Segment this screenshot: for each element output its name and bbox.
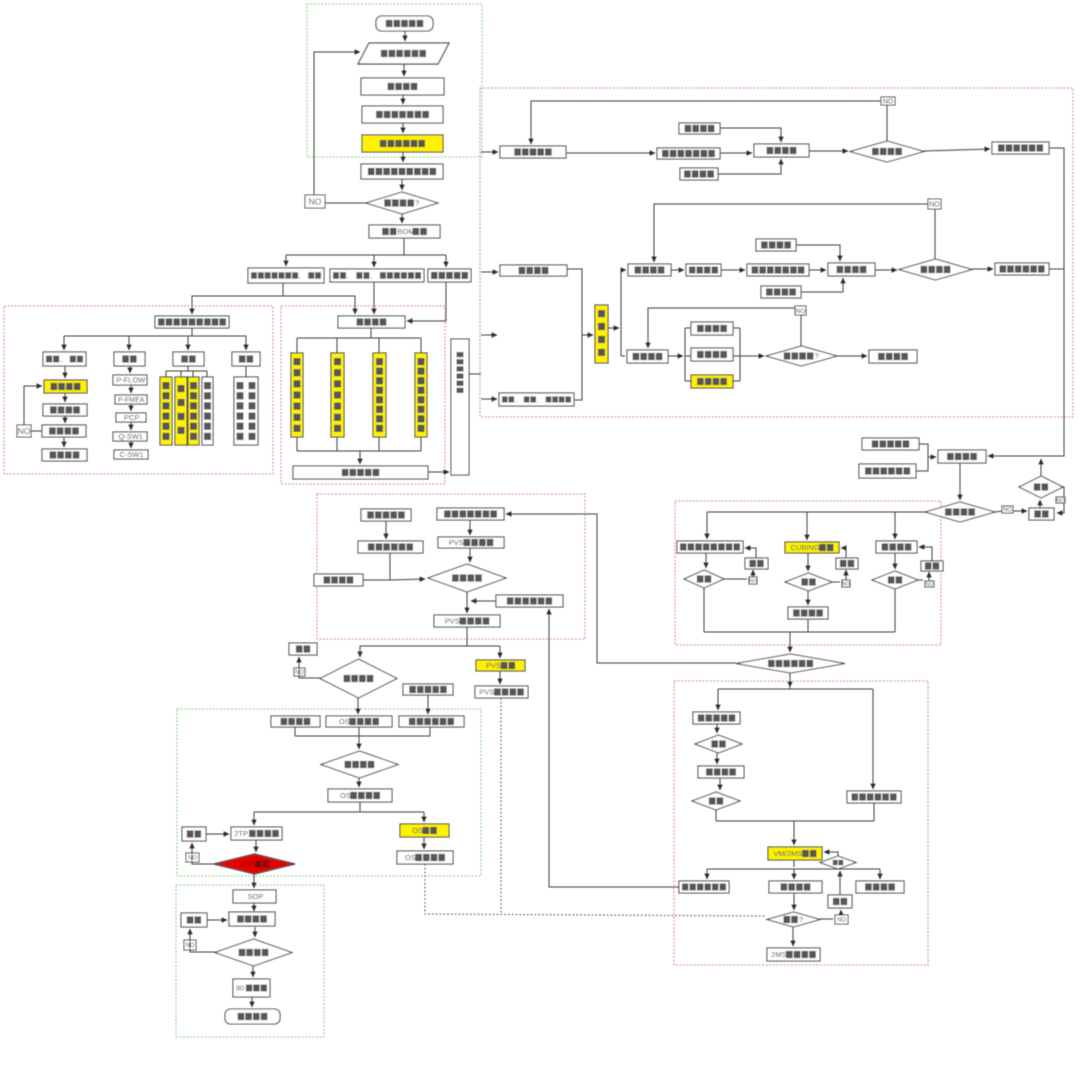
wire: 原材料采购 -> 自制零件生产 (PVS) bbox=[385, 521, 387, 539]
wire: 自制零件生产 -> collector bbox=[429, 727, 431, 736]
svg-text:NO: NO bbox=[1056, 498, 1065, 504]
svg-text:?: ? bbox=[815, 352, 819, 361]
wire: 整改 -> 2TP生产准备 bbox=[206, 833, 229, 835]
box: NO (2TP loop) bbox=[186, 853, 199, 862]
wire: vertical tap -> 设计审核 bbox=[582, 334, 593, 336]
wire: 性能试验样品装配 -> 实验1 bbox=[705, 553, 707, 568]
box: 工装验收 bbox=[691, 348, 733, 361]
wire: 自制零件生产 -> 入库检验 (PVS) bbox=[389, 553, 391, 580]
wire: NO -> 整改 bbox=[1013, 510, 1027, 512]
box: 工艺 bbox=[114, 352, 145, 366]
box: 投入使用 bbox=[869, 350, 917, 363]
wire: distribution horizontal (2MS bottom) bbox=[707, 868, 880, 870]
svg-text:2MS: 2MS bbox=[771, 950, 786, 959]
wire: collector stem 2 bbox=[336, 437, 338, 451]
wire: 包装采购 + 自制零件生产 -> 入库检验 left bbox=[363, 579, 390, 581]
wire: collector -> 送样状态确认 bbox=[789, 632, 791, 652]
box: NO (性能3) bbox=[925, 581, 934, 588]
svg-text:NO: NO bbox=[837, 918, 846, 924]
wire: PVS送样 -> PVS状态跟踪 bbox=[499, 671, 501, 684]
vbox: 材料试验大纲 (yellow) bbox=[160, 377, 172, 445]
box: 项目立项 bbox=[361, 78, 444, 95]
wire: 2TP生产准备 -> 2TP审核 bbox=[255, 840, 257, 852]
wire: collector horizontal (OS) bbox=[295, 735, 430, 737]
wire: 初步评定 -> 等待总成装配 (row1) bbox=[924, 149, 990, 151]
wire: 2TP审核 -> SOP bbox=[253, 874, 255, 888]
wire: 送样文件准备 -> collector bbox=[873, 803, 875, 821]
wire: 检验2 -> collector (2MS) bbox=[715, 810, 717, 821]
wire: 整改 -> 持续改进 bbox=[207, 919, 227, 921]
svg-text:P-FMEA: P-FMEA bbox=[118, 397, 145, 404]
wire: split -> 工艺 bbox=[128, 336, 130, 350]
wire: 实验1 -> NO bbox=[724, 578, 747, 580]
svg-text:,: , bbox=[347, 273, 349, 280]
box: 等待生产 bbox=[42, 449, 87, 461]
wire: split -> 分零件生产 bbox=[717, 689, 719, 710]
box: 包装物流 bbox=[43, 352, 86, 366]
svg-text:PVS: PVS bbox=[479, 688, 494, 697]
wire: 送样状态确认 -> split (2MS section) bbox=[789, 673, 791, 687]
svg-text:VM/2MS: VM/2MS bbox=[774, 849, 803, 858]
wire: 设计审核 -> 制造跟踪 vertical bbox=[608, 327, 619, 329]
wire: 工装验收 -> bracket right bbox=[733, 355, 740, 357]
wire: 原材料采购 -> 自制零件生产 (OS) bbox=[427, 695, 429, 714]
wire: stem 零部件检验规 bbox=[206, 371, 208, 377]
box: NO (生产评价 loop) bbox=[184, 940, 196, 950]
decision: 实验 (性能3) bbox=[872, 571, 918, 589]
wire: split -> 送样文件准备 bbox=[872, 689, 874, 789]
vbox: 确定检具供应商 (yellow) bbox=[331, 353, 344, 437]
svg-text:C-SW1: C-SW1 bbox=[120, 450, 144, 459]
vbox: 模具检具工装设备验收规范 bbox=[234, 377, 258, 445]
decision: 生产评价 bbox=[215, 939, 292, 966]
wire: 检验规范 -> 样品检验 top (row2) bbox=[796, 245, 840, 261]
svg-text:,: , bbox=[371, 273, 373, 280]
wire: collector stem 4 bbox=[420, 437, 422, 451]
wire: split bar to three tasks bbox=[286, 254, 446, 256]
wire: 大众认可 -> NO bbox=[31, 430, 42, 432]
wire: 项目启动会议 -> 数据制造可行性分析 bbox=[402, 152, 404, 162]
svg-text:,: , bbox=[537, 397, 539, 404]
wire: bracket -> 检具验收 bbox=[685, 380, 691, 382]
wire: distribution -> CUBING送样 bbox=[806, 512, 808, 540]
box: 包装采购 (PVS) bbox=[314, 574, 363, 586]
section border: bottom-right 2MS (pink dashed) bbox=[674, 681, 928, 965]
box: 检验工具 (row2) bbox=[761, 286, 801, 298]
decision: 通过? (2MS) bbox=[767, 912, 820, 927]
svg-text:NO: NO bbox=[926, 582, 934, 588]
box: 包装采购 (OS) bbox=[271, 716, 320, 727]
wire: NO loop -> 零部件试制 top (row1) bbox=[531, 101, 881, 144]
wire: collector stem 3 bbox=[378, 437, 380, 451]
wire: 检验工具 -> 样品检验 bottom (row2) bbox=[801, 278, 843, 292]
wire: 提交开发计划 -> right section border bbox=[469, 373, 481, 375]
wire: 验收合格 -> 投入使用 bbox=[837, 355, 867, 357]
wire: 检验 diamond -> up into 总成装配 line bbox=[1040, 459, 1042, 476]
box: CUBING送样 (yellow) bbox=[785, 542, 839, 553]
wire: split horizontal (PVS下) bbox=[360, 645, 500, 647]
section border: top development (green dashed) bbox=[307, 4, 482, 157]
vbox: 确定模具供应商 (yellow) bbox=[291, 353, 303, 437]
box: 分零件图纸绘制转换 bbox=[248, 268, 324, 283]
box: 试验取样 bbox=[876, 541, 917, 553]
wire: 实验 diamond -> VM/2MS送样 loop bbox=[824, 852, 838, 856]
decision: 初步评定 (row2) bbox=[899, 259, 972, 280]
box: 设备验收 bbox=[691, 322, 733, 335]
wire: P-FLOW -> P-FMEA bbox=[130, 385, 132, 393]
wire: 等待总成装配 row2 joins long line bbox=[1049, 268, 1064, 270]
box: 检验工具 (row1) bbox=[680, 168, 718, 180]
box: 样品制造 bbox=[43, 404, 87, 416]
box: 整改 (SOP loop) bbox=[181, 913, 207, 927]
box: 制造跟踪 (row2) bbox=[628, 264, 671, 276]
decision: 2TP审核 (red) bbox=[214, 854, 295, 874]
box: 自制零件生产 (OS) bbox=[399, 716, 464, 727]
decision: 验证通过? bbox=[366, 192, 438, 214]
wire: 零部件试制 -> 样品提交及报告 bbox=[566, 152, 655, 154]
wire: 成立多功能小组 -> 项目启动会议 bbox=[402, 123, 404, 133]
wire: 通过 -> NO bbox=[832, 581, 840, 583]
wire: 验收合格 -> NO (row3) bbox=[800, 315, 802, 346]
svg-text:NO: NO bbox=[929, 202, 940, 209]
wire: vertical -> 制造跟踪 row3 bbox=[621, 355, 625, 357]
section border: right trial-make (pink dashed) bbox=[480, 88, 1073, 417]
wire: 检验 NO loop down bbox=[1057, 487, 1064, 513]
box: 采购询价 bbox=[338, 316, 405, 328]
wire: 送样状态确认 -> PVS 外购件认可报告 (long loop) bbox=[506, 514, 736, 663]
box: 整改 (OS loop) bbox=[182, 827, 206, 841]
box: P-FMEA bbox=[115, 395, 147, 404]
wire: 过程设计 -> OS零件采购 bbox=[357, 698, 359, 714]
box: 数据制造可行性分析 bbox=[361, 164, 443, 179]
box: 开发任务书 (development task, rounded) bbox=[376, 16, 433, 31]
wire: merge -> 入库检验 left vertex bbox=[390, 579, 425, 580]
wire: distribution -> 认可跟踪 bbox=[793, 869, 795, 879]
wire: 样品制造 -> 大众认可 bbox=[64, 416, 66, 423]
svg-text:NO: NO bbox=[842, 581, 850, 587]
wire: 持续改进 -> 生产评价 bbox=[254, 927, 256, 937]
wire: stem 测量计划 bbox=[180, 371, 182, 377]
svg-text:CUBING: CUBING bbox=[791, 543, 820, 552]
wire: 入库检验 -> OS总成装配 bbox=[358, 778, 360, 787]
svg-text:NO: NO bbox=[18, 426, 31, 436]
section border: OS (green dashed) bbox=[177, 709, 481, 876]
decision: 总成检验 bbox=[925, 502, 995, 522]
wire: 供应商定点 -> 提交开发计划 bbox=[428, 471, 449, 473]
wire: PVS状态跟踪 dotted down bbox=[500, 698, 502, 914]
vbox: 零部件检验规 bbox=[202, 377, 213, 445]
svg-text:,: , bbox=[60, 357, 62, 364]
wire: 制造跟踪 -> 验收 bracket bbox=[668, 355, 683, 357]
vbox: 设计审核 (yellow) bbox=[595, 305, 608, 363]
box: OS送样 (yellow) bbox=[400, 824, 449, 837]
wire: 分零件图纸绘制 -> 文件编制及生产准备 / 采购询价 bbox=[192, 283, 283, 314]
box: 模具评定 bbox=[856, 881, 904, 893]
wire: stem -> 确定模具供应商 bbox=[296, 338, 298, 353]
svg-text:PCP: PCP bbox=[124, 413, 139, 422]
wire: 检测 split horizontal bbox=[166, 370, 207, 372]
wire: 模具检具工装开发任务 -> 采购询价 bbox=[373, 282, 375, 314]
wire: Q-SW1 -> C-SW1 bbox=[130, 441, 132, 448]
svg-text:PVS: PVS bbox=[449, 538, 464, 547]
wire: vertical -> 制造跟踪 row2 bbox=[621, 269, 626, 271]
wire: split -> 验收 bbox=[245, 336, 247, 350]
wire: 工艺 -> P-FLOW bbox=[129, 366, 131, 373]
box: 项目启动会议 (yellow) bbox=[362, 135, 443, 152]
box: 装配作业书 bbox=[862, 438, 919, 450]
box: Q-SW1 bbox=[113, 432, 147, 441]
box: 制造跟踪 (row3) bbox=[627, 350, 668, 363]
box: 初始BOM清单 bbox=[369, 225, 440, 238]
svg-text:,: , bbox=[515, 397, 517, 404]
wire: 实验3 -> collector bbox=[894, 589, 896, 632]
box: 检测 bbox=[173, 352, 204, 366]
wire: collector horizontal bbox=[297, 450, 421, 452]
box: NO (row1 loop) bbox=[881, 97, 895, 106]
wire: split horizontal (OS下) bbox=[254, 811, 424, 813]
box: SOP bbox=[233, 890, 276, 903]
wire: collector -> VM/2MS送样 bbox=[793, 821, 795, 845]
wire: 外购件认可报告 -> PVS零件采购 bbox=[469, 520, 471, 535]
wire: split -> OS送样 bbox=[423, 812, 425, 822]
box: PVS状态跟踪 bbox=[475, 686, 528, 698]
wire: 整改 -> 检验 bbox=[1039, 500, 1041, 508]
wire: distribution -> 试生产线评定 bbox=[706, 869, 708, 879]
svg-text:NO: NO bbox=[188, 856, 197, 862]
svg-text:NO: NO bbox=[883, 99, 894, 106]
wire: 认可跟踪 -> 通过 bbox=[793, 893, 795, 910]
decision: 实验 (VM loop) bbox=[820, 856, 856, 869]
box: 试生产线评定 bbox=[679, 881, 729, 893]
wire: OS总成装配 -> split bbox=[359, 802, 361, 812]
wire: 检具验收 -> bracket right bbox=[733, 380, 740, 382]
wire: 包装方案 -> 样品制造 bbox=[64, 393, 66, 402]
section border: PVS (pink dashed) bbox=[317, 494, 585, 639]
wire: 总成检验 -> NO tag bbox=[995, 511, 1002, 512]
box: 自制零件生产 (PVS) bbox=[358, 541, 423, 553]
wire: distribution -> 试验取样 bbox=[894, 512, 896, 539]
wire: NO -> 整改2 bbox=[845, 570, 847, 580]
wire: 实验1 -> collector bbox=[703, 588, 705, 632]
decision: 初步评定 (row1) bbox=[850, 141, 924, 162]
box: 验收 bbox=[232, 352, 260, 366]
svg-text:NO: NO bbox=[295, 670, 304, 676]
box: P-FLOW bbox=[113, 375, 147, 385]
svg-text:NO: NO bbox=[749, 578, 757, 584]
svg-text:OS: OS bbox=[340, 791, 351, 800]
svg-text:Q-SW1: Q-SW1 bbox=[119, 432, 144, 441]
svg-text:SOP: SOP bbox=[248, 892, 264, 901]
wire: border stub -> 工装设备检具设计 bbox=[481, 398, 497, 400]
wire: split horizontal (2MS top) bbox=[718, 688, 873, 690]
vbox: 确定分零件供应商 (yellow) bbox=[415, 353, 427, 437]
box: NO (检验 loop) bbox=[1056, 497, 1065, 504]
wire: 设备申购单 -> 采购询价 right side bbox=[407, 282, 446, 321]
box: 样品检验 (row1) bbox=[754, 144, 809, 157]
box: NO (验证 loop) bbox=[305, 195, 325, 208]
box: 供应商定点 bbox=[293, 466, 428, 479]
wire: 装配作业书 -> 总成装配 bbox=[916, 444, 928, 471]
wire: distribution -> 性能试验样品装配 bbox=[706, 512, 708, 539]
box: PVS总成装配 bbox=[434, 615, 500, 627]
wire: 验证通过 -> 初始BOM清单 bbox=[401, 214, 403, 223]
decision: 过程设计 bbox=[320, 659, 397, 698]
box: 试生产线转移 bbox=[496, 595, 563, 607]
section border: performance-test (pink dashed) bbox=[675, 501, 941, 645]
wire: 采购询价 split stem bbox=[370, 328, 372, 338]
wire: NO -> 整改 (2MS) bbox=[840, 910, 842, 915]
wire: collector horizontal (2MS) bbox=[716, 820, 874, 822]
wire: 采购询价 split horizontal bbox=[297, 337, 421, 339]
box: 整改 (性能1) bbox=[745, 558, 768, 569]
section border: left document preparation (pink dashed) bbox=[4, 306, 273, 474]
wire: 初步评定 -> No (row2) bbox=[934, 209, 936, 259]
box: NO (row3 loop) bbox=[795, 306, 806, 315]
wire: 总成检验 -> distribution line bbox=[707, 511, 925, 513]
wire: stem -> 确定检具供应商 bbox=[336, 338, 338, 353]
section border: bottom-left SOP (green dashed) bbox=[176, 885, 324, 1037]
box: 样品提交及报告 (row1) bbox=[657, 148, 720, 159]
wire: 验收 -> 验收规范 box bbox=[245, 366, 247, 377]
wire: PCP -> Q-SW1 bbox=[130, 422, 132, 430]
wire: 大众认可 -> 等待生产 bbox=[63, 437, 65, 447]
box: 成立多功能小组 bbox=[362, 106, 443, 123]
box: PVS送样 (yellow) bbox=[476, 660, 525, 671]
vbox: 测量计划 (yellow) bbox=[175, 377, 187, 445]
wire: 样品检验 -> 初步评定 (row1) bbox=[809, 150, 848, 152]
svg-text:P-FLOW: P-FLOW bbox=[116, 376, 146, 385]
wire: 文件编制 split bar bbox=[191, 328, 193, 336]
wire: CUBING送样 -> 通过 bbox=[807, 553, 809, 571]
wire: split -> 设备申购单 bbox=[445, 255, 447, 267]
box: 检验规范 (row1) bbox=[679, 123, 720, 134]
box: 整改 (性能2) bbox=[836, 558, 858, 569]
box: 设备申购单 bbox=[428, 269, 471, 282]
svg-text:,: , bbox=[299, 273, 301, 280]
box: 零部件试制 bbox=[500, 146, 566, 158]
svg-text:OS: OS bbox=[412, 826, 423, 835]
wire: 初步评定 -> 等待总成装配 (row2) bbox=[972, 268, 993, 270]
box: 整改 (2MS loop) bbox=[828, 895, 852, 908]
wire: stem -> 确定分零件供应商 bbox=[420, 338, 422, 353]
wire: 整改2 -> CUBING送样 bbox=[841, 548, 846, 558]
decision: 入库检验 (PVS) bbox=[428, 564, 506, 592]
box: 原材料采购 (OS) bbox=[403, 684, 453, 695]
wire: PVS总成装配 -> split bbox=[466, 627, 468, 646]
box: 样品提交及报告 (row2) bbox=[747, 264, 809, 276]
wire: split -> 过程设计 bbox=[359, 646, 361, 657]
wire: stem 材料试验大纲 bbox=[165, 371, 167, 377]
wire: 分零件生产 -> 检验1 bbox=[716, 724, 718, 733]
box: 整改 (性能3) bbox=[921, 561, 943, 571]
box: 性能试验样品装配 bbox=[677, 541, 743, 553]
box: 工装设备检具设计 bbox=[499, 393, 574, 406]
box: C-SW1 bbox=[114, 450, 148, 459]
box: 认可跟踪 bbox=[769, 881, 822, 893]
vbox: 确定工装设备供应 (yellow) bbox=[373, 353, 386, 437]
box: 外购件认可报告 bbox=[437, 508, 504, 520]
wire: No loop -> 制造跟踪 top (row2) bbox=[654, 204, 928, 262]
decision: 检验 (2MS 1) bbox=[695, 735, 742, 753]
svg-text:90: 90 bbox=[236, 984, 244, 993]
wire: vertical between 制造跟踪 rows bbox=[620, 270, 622, 356]
wire: 数据制造可行性分析 -> 验证通过 diamond bbox=[401, 179, 403, 190]
svg-text:PVS: PVS bbox=[486, 661, 501, 670]
wire: NO -> 整改3 bbox=[928, 572, 930, 581]
box: 2MS认可报告 bbox=[767, 948, 820, 961]
box: OS状态跟踪 bbox=[397, 851, 453, 864]
svg-text:NO: NO bbox=[309, 197, 322, 207]
decision: 送样状态确认 bbox=[736, 654, 845, 673]
decision: 入库检验 (OS) bbox=[321, 751, 398, 778]
wire: bracket -> 工装验收 bbox=[685, 355, 691, 357]
wire: bracket left vertical bbox=[684, 328, 686, 381]
box: NO (大众认可 loop) bbox=[17, 425, 31, 437]
box: 大众认可 bbox=[42, 425, 86, 437]
wire: split -> 模具检具工装开发任务 bbox=[373, 255, 375, 267]
wire: 项目立项 -> 成立多功能小组 bbox=[402, 95, 404, 104]
box: OS总成装配 bbox=[328, 789, 392, 802]
wire: 90天生产 -> 项目移交 bbox=[251, 997, 253, 1007]
box: NO (性能2) bbox=[842, 580, 850, 587]
wire: 总成装配 -> 总成检验 bbox=[959, 463, 961, 500]
box: NO (性能1) bbox=[749, 577, 757, 584]
wire: split -> 检测 bbox=[187, 336, 189, 350]
wire: 制造跟踪 -> 首件自检 bbox=[671, 269, 684, 271]
box: PVS零件采购 bbox=[438, 537, 504, 548]
io: 图纸数据输入 (drawing data input parallelogram) bbox=[358, 43, 449, 64]
svg-text:2TP: 2TP bbox=[234, 829, 248, 838]
wire: 分零件图纸绘制 branch right -> 采购询价 bbox=[283, 296, 355, 314]
wire: 等待总成装配 row1 -> 总成装配 (long right line) bbox=[988, 148, 1064, 456]
wire: 样品检验 -> 初步评定 (row2) bbox=[875, 269, 897, 271]
wire: 图纸数据输入 -> 项目立项 bbox=[403, 64, 405, 76]
wire: stem -> 确定工装设备供应 bbox=[378, 338, 380, 353]
wire: collector -> 供应商定点 bbox=[359, 451, 361, 464]
box: 模具设计 bbox=[500, 265, 567, 276]
wire: 开发任务书 -> 图纸数据输入 bbox=[404, 31, 406, 41]
box: 分零件生产 bbox=[693, 712, 740, 724]
wire: OS状态跟踪 dotted -> 通过 bbox=[425, 864, 766, 916]
wire: 初始BOM清单 -> split bar bbox=[403, 238, 405, 255]
wire: border stub arrow (middle) bbox=[481, 334, 497, 336]
wire: collector -> 入库检验 (OS) bbox=[358, 736, 360, 749]
wire: 总成装配 -> 检验2 bbox=[719, 778, 721, 790]
box: 整改 (assembly) bbox=[1029, 508, 1054, 520]
box: 原材料采购 (PVS) bbox=[361, 509, 411, 521]
box: PCP bbox=[116, 413, 146, 422]
wire: distribution -> 模具评定 bbox=[879, 869, 881, 879]
wire: 2TP审核 NO loop -> 整改 bbox=[192, 843, 214, 864]
wire: 样品提交及报告 -> 样品检验 (row2) bbox=[809, 269, 826, 271]
box: No (row2 loop) bbox=[928, 199, 941, 209]
wire: OS零件采购 -> collector bbox=[358, 727, 360, 736]
box: 等待总成装配 (row1) bbox=[992, 142, 1049, 154]
wire: 检测 -> columns split bbox=[187, 366, 189, 371]
wire: OS送样 -> OS状态跟踪 bbox=[423, 837, 425, 849]
svg-text:?: ? bbox=[799, 915, 803, 924]
decision: 验收合格? bbox=[766, 346, 837, 366]
wire: 试生产线转移 -> PVS flow bbox=[471, 600, 496, 602]
wire: 检验规范 -> 样品检验 top (row1) bbox=[720, 128, 781, 142]
svg-text:2TP: 2TP bbox=[240, 860, 254, 869]
wire: collector horizontal (性能) bbox=[704, 631, 895, 633]
box: 模具皮纹 bbox=[788, 607, 828, 619]
wire: 通过 -> 模具皮纹 bbox=[807, 591, 809, 605]
decision: 实验 (性能1) bbox=[684, 570, 724, 588]
box: NO (2MS loop) bbox=[835, 915, 848, 924]
wire: border stub -> 模具设计 bbox=[481, 271, 498, 273]
